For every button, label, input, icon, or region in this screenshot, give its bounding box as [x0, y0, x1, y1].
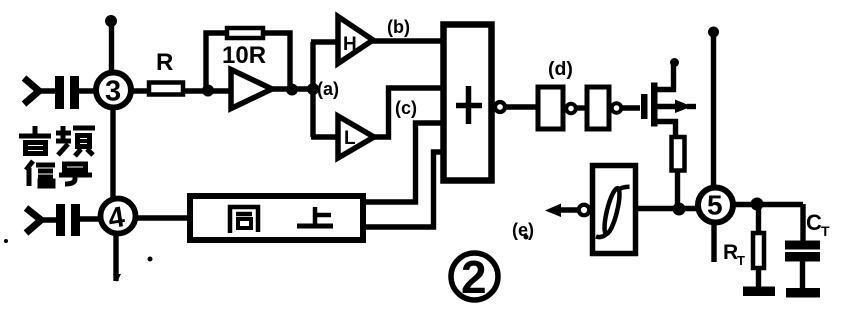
svg-text:10R: 10R — [222, 42, 266, 69]
svg-text:C: C — [806, 210, 822, 235]
svg-text:(e): (e) — [512, 220, 534, 240]
svg-text:(d): (d) — [548, 58, 573, 80]
svg-text:R: R — [156, 49, 173, 76]
svg-text:R: R — [723, 241, 738, 264]
svg-text:T: T — [821, 223, 830, 239]
svg-text:H: H — [343, 34, 357, 55]
svg-text:L: L — [344, 128, 356, 149]
svg-text:T: T — [737, 253, 745, 268]
svg-text:5: 5 — [707, 190, 723, 221]
svg-text:(b): (b) — [387, 17, 410, 37]
svg-text:(c): (c) — [395, 98, 417, 118]
svg-text:2: 2 — [461, 251, 487, 303]
svg-text:3: 3 — [105, 76, 121, 108]
svg-text:(a): (a) — [317, 79, 339, 99]
